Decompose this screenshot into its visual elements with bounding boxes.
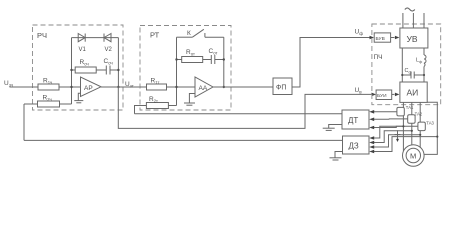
op-amp AR — [81, 77, 102, 97]
wire AR output to Uzt node — [101, 86, 140, 88]
ground at AA noninverting input — [184, 94, 195, 106]
svg-text:ПЧ: ПЧ — [374, 54, 383, 61]
wire motor phase C — [419, 102, 421, 149]
junction dots DC link — [401, 74, 425, 76]
resistor Rot — [182, 57, 203, 63]
motor M — [403, 145, 425, 167]
AC supply tilde — [405, 8, 415, 11]
diode V1 — [78, 34, 85, 42]
block DZ (voltage sensor) — [343, 136, 370, 154]
wire R1t to AA — [167, 86, 196, 88]
block BUI — [376, 90, 392, 100]
wire neutral tap to DZ with arrow — [374, 137, 437, 152]
svg-text:АА: АА — [199, 85, 208, 92]
svg-text:Rоч: Rоч — [80, 59, 89, 67]
svg-text:R2ч: R2ч — [43, 95, 52, 103]
svg-text:Lф: Lф — [416, 58, 422, 64]
wire R2ch input from DZ feedback — [23, 104, 25, 140]
wire DZ output to R2ch — [24, 139, 343, 141]
current transformer TA3 — [418, 122, 425, 131]
wire DT output to R2t — [135, 113, 343, 115]
dashed block RCh (speed regulator) — [33, 25, 124, 110]
wire TA1 to DT with arrow — [374, 111, 397, 113]
svg-text:АР: АР — [84, 85, 93, 92]
wire input Uzch — [10, 86, 39, 88]
svg-text:Uзч: Uзч — [4, 80, 14, 88]
svg-text:V1: V1 — [79, 47, 87, 53]
svg-text:Cоч: Cоч — [104, 58, 113, 66]
wire phase A tap to DZ with arrow — [374, 126, 403, 138]
resistor R1t — [147, 84, 167, 90]
svg-text:К: К — [187, 30, 191, 37]
svg-text:БУВ: БУВ — [376, 36, 385, 42]
marker arrow near motor — [395, 130, 401, 142]
capacitor Coch — [106, 66, 110, 75]
wire diode branch top — [72, 37, 119, 39]
junction dots RCh — [70, 69, 119, 88]
wire AA output to FP — [213, 86, 273, 88]
svg-text:БУИ: БУИ — [377, 93, 387, 99]
svg-text:ТА1: ТА1 — [406, 105, 414, 110]
wire BUI to AI with arrow — [392, 93, 395, 95]
wire Uzt down to Uv — [118, 87, 372, 128]
svg-text:Uф: Uф — [355, 29, 364, 37]
svg-text:ДТ: ДТ — [348, 116, 358, 125]
capacitor Cf branch — [402, 74, 424, 76]
svg-text:УВ: УВ — [407, 34, 418, 44]
wire motor phase A — [402, 102, 404, 150]
wire TA2 to DT with arrow — [374, 118, 408, 120]
wire motor phase B — [411, 102, 413, 144]
op-amp AA — [195, 77, 213, 97]
wire three-phase supply lines — [403, 13, 424, 28]
dashed block PCh (frequency converter) — [372, 24, 441, 105]
wire TA3 to DT with arrow — [374, 126, 418, 127]
junction dots motor taps — [402, 125, 438, 137]
wire FP output to Uf — [292, 38, 371, 88]
wire R2ch to summing rail — [60, 103, 72, 105]
svg-text:Rот: Rот — [186, 49, 195, 57]
svg-text:ФП: ФП — [276, 85, 286, 92]
svg-text:R1т: R1т — [151, 78, 160, 86]
arrow into BUV — [370, 36, 375, 40]
wire AI return to motor right side — [424, 102, 437, 154]
svg-text:R1ч: R1ч — [43, 78, 52, 86]
wire RC feedback branch RCh — [72, 69, 119, 71]
block FP — [273, 78, 292, 95]
svg-text:Uзт: Uзт — [125, 81, 134, 89]
svg-text:Uв: Uв — [355, 87, 363, 95]
svg-text:АИ: АИ — [407, 88, 419, 98]
wire R2t to summing rail — [168, 105, 176, 107]
junction dots RT — [175, 58, 225, 88]
svg-text:Cот: Cот — [209, 48, 218, 56]
wire BUV to UV with arrow — [391, 37, 395, 39]
svg-text:R2т: R2т — [149, 96, 158, 104]
wire RC feedback branch RT — [177, 59, 224, 61]
svg-text:РТ: РТ — [150, 31, 160, 40]
svg-text:ДЗ: ДЗ — [349, 142, 359, 151]
svg-text:М: М — [410, 152, 416, 161]
inductor Lf — [424, 55, 426, 67]
svg-text:ТА2: ТА2 — [415, 112, 423, 117]
current transformer TA1 — [397, 107, 404, 116]
capacitor Cot — [211, 55, 215, 64]
arrow into BUI — [372, 93, 377, 97]
block UV (controlled rectifier) — [400, 28, 428, 48]
block AI (autonomous inverter) — [400, 82, 427, 102]
wire R1ch to op-amp — [59, 86, 81, 88]
ground at DT — [323, 125, 342, 131]
wire phase B tap to DZ with arrow — [374, 131, 412, 143]
switch K branch — [177, 29, 224, 37]
svg-text:V2: V2 — [105, 47, 113, 53]
wire R2t from DT feedback — [135, 106, 147, 114]
wire DC link left rail — [401, 48, 403, 82]
block DT (current sensor) — [342, 110, 369, 129]
resistor R2t — [146, 103, 168, 109]
wire DC link right rail — [423, 48, 425, 55]
wire left feedback rail RCh — [71, 38, 73, 104]
wire Uzt into R1t — [140, 86, 147, 88]
resistor R1ch — [38, 84, 59, 90]
wire right feedback rail RCh — [117, 38, 119, 87]
dashed block RT (current regulator) — [140, 26, 231, 111]
ground at DZ — [330, 152, 343, 161]
diode V2 — [104, 34, 111, 42]
ground at AR noninverting input — [74, 93, 83, 103]
wire phase C tap to DZ with arrow — [374, 135, 420, 147]
svg-text:Cф: Cф — [405, 68, 412, 74]
wire left feedback rail RT — [176, 37, 178, 105]
svg-text:ТА3: ТА3 — [426, 121, 434, 126]
current transformer TA2 — [408, 115, 415, 124]
resistor R2ch — [38, 101, 60, 107]
block BUV — [374, 33, 390, 42]
svg-text:РЧ: РЧ — [37, 31, 47, 40]
resistor Roch — [75, 67, 96, 73]
wire right feedback rail RT — [223, 37, 225, 87]
